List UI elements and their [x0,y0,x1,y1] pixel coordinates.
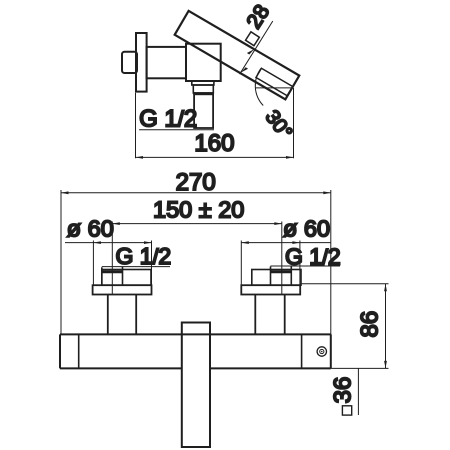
o60 right arrows [241,241,249,244]
dim o60 left extensions [92,241,94,286]
svg-text:270: 270 [176,169,216,196]
dim 160 left extension [135,93,137,158]
top view: outlet pipe G1/2 [194,94,213,128]
G1/2 top-view leader underline [139,129,214,131]
bar right cap joint [301,334,303,368]
arrowheads [61,49,387,368]
svg-text:86: 86 [357,311,384,338]
square36 leader line [357,368,359,415]
left inlet centerline [111,222,113,295]
dim 150+-20 line [112,223,281,225]
svg-text:36: 36 [330,377,357,404]
dim o60 right line [241,242,331,244]
spout aerator rect [256,68,293,96]
left cartridge box [102,270,151,286]
dim 160 line [136,156,294,158]
top view: wall flange plate [136,33,147,92]
right inlet centerline [281,222,283,295]
right flange escutcheon [241,285,300,294]
svg-text:150 ± 20: 150 ± 20 [153,197,244,223]
86 arrows [384,284,387,292]
angle horizontal reference line [256,87,294,89]
dim 270 line [61,192,331,194]
svg-text:ø 60: ø 60 [67,216,114,242]
dim 28 line across spout [240,21,273,74]
svg-text:30°: 30° [261,106,297,143]
svg-text:G 1/2: G 1/2 [139,106,197,133]
dim 86 bottom extension [331,367,389,369]
body bar outline [60,334,331,368]
top view: valve body square [186,44,221,81]
label square-28 rotated [242,1,274,46]
top view: thread dark band [193,92,213,95]
left flange escutcheon [93,285,152,294]
svg-text:G 1/2: G 1/2 [285,244,341,270]
right nipple [271,266,292,285]
right cartridge box [252,270,301,286]
top view: collar below valve [192,81,214,85]
top view: wall supply square [122,52,137,73]
dim 270 left extension [60,190,62,334]
bottom spout [182,323,210,448]
temperature screw circle [317,347,326,356]
top view: spout rotated rect [175,11,300,100]
left pipe [108,295,136,335]
left G1/2 leader underline [102,266,170,268]
160 arrows [136,156,144,159]
top view: threaded collar [193,85,213,93]
dim o60 left line [65,242,152,244]
o60 left arrows [93,241,101,244]
270 arrows [61,191,69,194]
30 degree arc [255,68,263,105]
svg-text:G 1/2: G 1/2 [116,243,172,269]
dim o60 right extensions [240,241,242,286]
top view: horizontal body [147,47,186,78]
label square-36 rotated [330,377,357,415]
dim 270 right extension (bar right edge) [330,190,332,368]
28 arrows along rotated dim [241,67,249,73]
svg-text:160: 160 [194,130,234,157]
angle vertical reference + 160 right extension [293,88,295,158]
svg-text:28: 28 [242,1,274,33]
right G1/2 leader underline [271,265,341,267]
bar left cap joint [78,334,80,368]
svg-text:ø 60: ø 60 [283,216,330,242]
right pipe [255,295,284,335]
left nipple [102,267,123,285]
dim 86 top extension [301,283,389,285]
150 arrows [112,222,120,225]
dim 86 line [385,284,387,369]
